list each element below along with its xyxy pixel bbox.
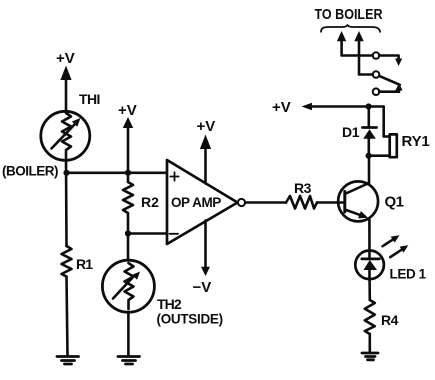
svg-text:+V: +V xyxy=(272,99,291,116)
wire R3 to Q1 base xyxy=(317,201,345,204)
ground G3 xyxy=(362,353,378,360)
svg-text:Q1: Q1 xyxy=(385,194,404,211)
wire +V rail right xyxy=(312,105,384,108)
op-amp output bubble xyxy=(238,199,245,206)
wire boiler arrow 1 xyxy=(342,40,373,56)
resistor R2 xyxy=(123,182,133,216)
wire Q1 emitter to LED xyxy=(368,219,371,259)
wire LED to R4 xyxy=(368,280,371,300)
wire rail to op-amp minus input xyxy=(128,232,167,235)
svg-text:TH2: TH2 xyxy=(157,296,182,312)
svg-text:THI: THI xyxy=(79,91,100,107)
svg-text:+V: +V xyxy=(56,50,75,67)
wire junction to Q1 collector xyxy=(368,156,371,183)
node D1 bottom junction xyxy=(366,153,372,159)
wire to relay coil xyxy=(384,107,389,137)
op-amp minus sign xyxy=(170,233,179,235)
wire diode to junction xyxy=(367,139,370,156)
op-amp U1 xyxy=(167,160,238,244)
LED arrow 2 xyxy=(390,249,403,257)
wire TH1 to R1 xyxy=(65,160,68,247)
diode D1 xyxy=(363,126,377,129)
wire rail to op-amp plus input xyxy=(67,172,167,175)
op-amp plus sign xyxy=(170,172,178,180)
relay contact 1 xyxy=(373,52,380,59)
wire +V to TH1 xyxy=(65,78,68,112)
wire coil bottom xyxy=(369,154,389,157)
resistor R4 xyxy=(365,300,375,334)
wire output to R3 xyxy=(245,201,286,204)
svg-text:R4: R4 xyxy=(381,312,399,328)
svg-text:R2: R2 xyxy=(141,194,159,210)
svg-text:RY1: RY1 xyxy=(402,133,430,150)
svg-text:+V: +V xyxy=(197,118,216,135)
wire boiler arrow 2 xyxy=(359,40,373,75)
wire +V column 2 xyxy=(127,127,130,183)
node rail junction 2 xyxy=(125,170,131,176)
relay arm 1 xyxy=(379,56,398,60)
node D1 top junction xyxy=(366,103,372,109)
svg-text:R3: R3 xyxy=(294,180,312,196)
node boiler junction xyxy=(63,170,69,176)
svg-text:(BOILER): (BOILER) xyxy=(2,164,58,179)
relay contact 3 xyxy=(373,88,380,95)
wire junction to diode xyxy=(367,107,370,128)
ground G1 xyxy=(57,357,79,365)
resistor R3 xyxy=(286,196,317,209)
wire contact 2 diagonal xyxy=(379,76,399,85)
wire TH2 to ground xyxy=(127,313,130,357)
svg-text:+V: +V xyxy=(118,102,137,119)
wire R2 to TH2 xyxy=(127,216,130,260)
node rail junction minus xyxy=(125,230,131,236)
ground G2 xyxy=(118,357,140,365)
svg-text:−V: −V xyxy=(193,279,212,296)
svg-text:(OUTSIDE): (OUTSIDE) xyxy=(157,312,223,327)
transistor Q1 xyxy=(338,181,378,221)
thermistor TH2 xyxy=(102,260,154,312)
thermistor TH1 xyxy=(41,111,90,160)
wire -V op-amp xyxy=(204,221,207,269)
svg-text:R1: R1 xyxy=(76,256,93,272)
svg-text:OP AMP: OP AMP xyxy=(171,195,221,210)
wire R1 to ground xyxy=(67,277,68,357)
svg-text:TO BOILER: TO BOILER xyxy=(315,6,383,23)
LED arrow 1 xyxy=(383,239,394,246)
svg-text:LED 1: LED 1 xyxy=(390,267,427,282)
brace under TO BOILER xyxy=(321,25,380,32)
LED LED1 xyxy=(355,250,384,280)
relay coil RY1 xyxy=(390,134,397,157)
wire +V op-amp xyxy=(204,148,207,184)
svg-text:D1: D1 xyxy=(342,124,360,140)
wire R4 to ground xyxy=(368,334,371,352)
resistor R1 xyxy=(62,246,72,277)
relay arm 3 xyxy=(379,90,399,92)
relay contact 2 xyxy=(373,71,380,78)
